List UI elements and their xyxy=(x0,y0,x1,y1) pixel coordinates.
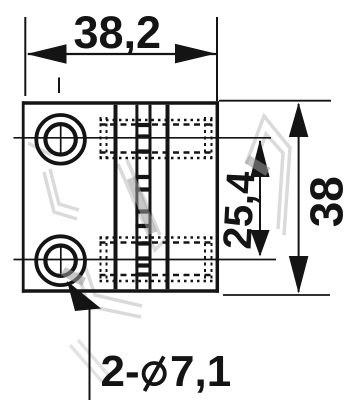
svg-text:38,2: 38,2 xyxy=(74,7,162,58)
leader arrow to hole xyxy=(67,281,101,311)
block outline top edge xyxy=(22,101,219,105)
dim 38 bottom arrow xyxy=(289,256,309,294)
leader line xyxy=(89,309,91,400)
hidden hole bottom band dashed lines xyxy=(100,238,215,282)
watermark gray overlay bands xyxy=(63,159,268,282)
dim 38 top arrow xyxy=(289,103,309,138)
ladder left rail xyxy=(135,105,138,289)
bottom hole bore circle xyxy=(45,246,75,276)
top hole bore circle xyxy=(45,124,75,154)
svg-text:38: 38 xyxy=(301,176,349,227)
bottom hole counterbore circle xyxy=(36,236,85,285)
top hole vertical centerline xyxy=(60,123,62,153)
diameter symbol circle xyxy=(144,363,165,384)
groove line x=167.5 xyxy=(166,105,170,289)
dim 38 bottom extension line xyxy=(223,294,330,296)
svg-text:25,4: 25,4 xyxy=(216,170,264,251)
dim 25,4 bottom arrow xyxy=(250,230,269,257)
watermark light outlines xyxy=(28,116,290,385)
block outline bottom edge xyxy=(22,289,219,293)
hidden band dashed verticals right xyxy=(205,117,212,282)
dim 38,2 line xyxy=(28,53,216,55)
dim 38,2 left arrow xyxy=(27,44,67,63)
top hole horizontal centerline xyxy=(14,137,272,139)
bottom hole horizontal centerline xyxy=(14,259,277,261)
top hole counterbore circle xyxy=(36,115,85,164)
ladder rungs xyxy=(135,125,151,275)
block outline right edge xyxy=(216,101,220,292)
svg-text:2-: 2- xyxy=(101,347,140,396)
diameter symbol slash xyxy=(145,357,164,391)
hidden band dashed verticals left xyxy=(101,117,107,282)
dim 38,2 right extension line xyxy=(216,17,218,101)
dim 38,2 right arrow xyxy=(175,44,216,64)
hidden hole top band dashed lines xyxy=(100,120,215,158)
centerline dash above block xyxy=(58,78,60,94)
svg-text:7,1: 7,1 xyxy=(170,347,231,396)
ladder right rail xyxy=(149,105,152,289)
dim 38 top extension line xyxy=(219,100,331,102)
block outline left edge xyxy=(22,101,25,292)
bottom hole vertical centerline xyxy=(60,244,62,274)
dim 38 line xyxy=(298,104,300,292)
dim 25,4 top arrow xyxy=(250,140,269,178)
dim 25,4 line xyxy=(259,141,261,255)
groove line x=115 xyxy=(114,105,118,289)
dim 38,2 left extension line xyxy=(24,17,26,96)
